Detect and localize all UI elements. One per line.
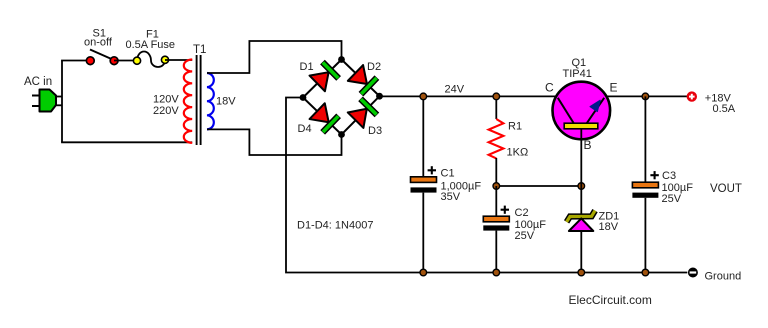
wire left vertical	[61, 61, 63, 143]
svg-text:1KΩ: 1KΩ	[507, 147, 529, 159]
wire secondary top to bridge	[207, 41, 342, 73]
junction dot ground rail C2	[493, 269, 500, 276]
junction dot base right	[578, 183, 585, 190]
junction dot rail R1	[493, 93, 500, 100]
transformer T1 secondary winding	[207, 73, 214, 129]
svg-text:AC in: AC in	[24, 76, 52, 88]
base node rail	[496, 185, 581, 187]
svg-text:25V: 25V	[515, 230, 535, 242]
junction dot base left	[493, 183, 500, 190]
svg-text:0.5A Fuse: 0.5A Fuse	[126, 39, 176, 51]
svg-text:VOUT: VOUT	[710, 183, 742, 195]
zener diode ZD1	[567, 186, 595, 273]
switch S1 contact left	[86, 57, 94, 65]
transformer T1 core	[196, 55, 198, 145]
bridge node right	[376, 93, 383, 100]
output terminal plus	[687, 91, 697, 101]
svg-text:18V: 18V	[216, 96, 236, 108]
svg-text:120V: 120V	[153, 94, 179, 106]
diode D3	[347, 99, 377, 128]
junction dot ground rail ZD1	[578, 269, 585, 276]
bridge node left	[300, 94, 307, 101]
wire C3 branch top	[644, 96, 646, 182]
svg-text:D2: D2	[367, 61, 381, 73]
junction dot rail C1	[420, 93, 427, 100]
wire secondary bottom to bridge	[207, 129, 342, 155]
wire C2 branch top	[495, 186, 497, 217]
capacitor C1	[411, 166, 437, 192]
svg-text:ElecCircuit.com: ElecCircuit.com	[569, 293, 652, 307]
wire 24V rail	[380, 95, 557, 97]
svg-text:25V: 25V	[662, 193, 682, 205]
wire top row to switch	[61, 60, 90, 62]
wire bridge left node down to ground rail	[286, 98, 687, 273]
diode D1	[309, 62, 338, 92]
svg-text:18V: 18V	[599, 221, 619, 233]
wire C1 branch bottom	[422, 193, 424, 273]
svg-text:D4: D4	[298, 123, 312, 135]
diode D4	[309, 103, 338, 133]
svg-text:on-off: on-off	[84, 37, 113, 49]
AC plug	[32, 90, 62, 112]
switch S1 lever	[90, 50, 112, 60]
svg-text:24V: 24V	[445, 84, 465, 96]
wire emitter rail	[607, 95, 688, 97]
svg-text:Ground: Ground	[705, 271, 742, 283]
bridge arm wires	[303, 60, 380, 135]
svg-text:T1: T1	[193, 44, 206, 56]
svg-text:E: E	[610, 80, 618, 94]
wire switch to fuse	[114, 60, 137, 62]
ground terminal	[688, 268, 698, 278]
junction dot ground rail C1	[420, 269, 427, 276]
fuse F1 contact right	[161, 56, 168, 63]
svg-text:C: C	[545, 80, 554, 94]
diode D2	[347, 65, 376, 95]
transformer T1 primary winding	[184, 60, 192, 143]
wire base B down	[580, 129, 582, 186]
svg-text:D1-D4: 1N4007: D1-D4: 1N4007	[297, 220, 373, 232]
bridge node bottom	[338, 131, 345, 138]
svg-text:C2: C2	[515, 207, 529, 219]
fuse F1 curve	[137, 52, 165, 68]
svg-text:C3: C3	[662, 170, 676, 182]
junction dot ground rail C3	[642, 269, 649, 276]
wire bottom loop	[61, 141, 192, 143]
svg-text:220V: 220V	[153, 105, 179, 117]
transistor Q1	[553, 82, 611, 140]
svg-text:D1: D1	[300, 61, 314, 73]
svg-text:C1: C1	[441, 168, 455, 180]
svg-text:R1: R1	[508, 121, 522, 133]
svg-text:Q1: Q1	[572, 57, 587, 69]
switch S1 contact right	[110, 57, 118, 65]
bridge node top	[338, 56, 345, 63]
wire fuse to transformer	[165, 59, 192, 61]
junction dot rail C3	[642, 93, 649, 100]
fuse F1 contact left	[133, 57, 140, 64]
capacitor C2	[483, 206, 509, 231]
svg-text:B: B	[584, 138, 592, 152]
svg-text:35V: 35V	[441, 191, 461, 203]
wire C1 branch top	[422, 96, 424, 177]
capacitor C3	[632, 171, 658, 198]
wire C2 branch bottom	[495, 231, 497, 273]
svg-text:D3: D3	[368, 125, 382, 137]
resistor R1	[489, 96, 504, 186]
wire C3 branch bottom	[644, 198, 646, 273]
svg-text:TIP41: TIP41	[563, 68, 592, 80]
svg-text:0.5A: 0.5A	[713, 103, 736, 115]
